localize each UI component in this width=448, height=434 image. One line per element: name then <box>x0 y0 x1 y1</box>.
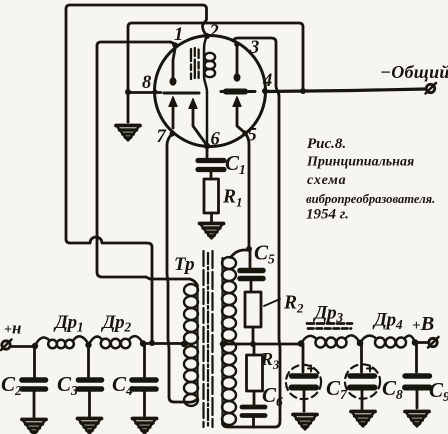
tube: coil core hatching <box>191 48 199 79</box>
svg-text:4: 4 <box>262 71 272 91</box>
svg-text:5: 5 <box>248 126 257 146</box>
inductor Dr2 <box>89 336 144 348</box>
capacitor C4 <box>132 344 156 417</box>
wire: common rail pin8/ground to pin2 crossover and right drop <box>128 23 303 122</box>
capacitor C5 <box>240 250 263 292</box>
wire: Dr4 to +B terminal <box>412 339 429 346</box>
wire: pin5 down to C5 node <box>245 133 252 252</box>
svg-text:схема: схема <box>307 173 347 188</box>
resistor R1 <box>204 179 219 221</box>
svg-text:1: 1 <box>174 25 183 45</box>
transformer Tr secondary winding <box>222 257 236 425</box>
tube: right contact bar <box>221 90 255 93</box>
node Dr1/Dr2 junction <box>85 342 91 348</box>
node pin5 <box>242 130 247 135</box>
wire: pin1 rail to primary top <box>97 42 198 286</box>
vibrator tube envelope U1 <box>155 36 266 147</box>
node Dr3/Dr4 junction <box>357 340 364 347</box>
wire: pin7 to primary bottom <box>167 134 196 402</box>
svg-text:7: 7 <box>157 127 167 147</box>
svg-text:8: 8 <box>142 73 151 93</box>
capacitor C3 <box>79 345 102 416</box>
tube: reed arrow from pin6 <box>189 99 206 145</box>
dashed can around C7 <box>286 365 321 399</box>
node pin2 <box>204 33 210 39</box>
wire: outer loop from pin2 down-left to primary center tap <box>66 5 207 346</box>
wire: pin3 down right side to secondary bottom rail <box>222 38 280 427</box>
node pin7 <box>169 131 174 136</box>
wire: secondary top lead to C5 node <box>231 250 249 258</box>
node pin6 <box>204 143 210 149</box>
terminal +N input <box>1 340 12 351</box>
tube: left fixed contact from pin1 <box>170 42 178 86</box>
svg-text:вибропреобразователя.: вибропреобразователя. <box>306 192 435 206</box>
wire: pin 8 lead <box>125 89 161 95</box>
ground under C7 <box>293 415 317 430</box>
ground under C3 <box>78 419 102 434</box>
svg-text:Тр: Тр <box>174 254 195 275</box>
svg-text:1954 г.: 1954 г. <box>306 207 349 223</box>
inductor Dr4 <box>360 336 415 348</box>
capacitor C8 electrolytic <box>350 343 375 409</box>
wire: Dr2 to primary center tap rail <box>140 340 183 346</box>
capacitor C6 <box>242 391 265 427</box>
transformer secondary center tap <box>220 341 240 347</box>
svg-text:−Общий: −Общий <box>380 62 448 82</box>
resistor R2 <box>245 292 261 347</box>
caption text <box>306 136 435 223</box>
capacitor C9 <box>405 343 430 409</box>
svg-text:Принципиальная: Принципиальная <box>306 155 414 170</box>
plus mark C8 <box>367 366 373 372</box>
ground under C8 <box>351 412 375 427</box>
label R2 pointer <box>264 299 280 306</box>
tube: reed arrow from pin7 <box>169 97 177 129</box>
node pin8 <box>152 89 157 94</box>
core marks above Dr3 <box>307 324 352 329</box>
svg-text:6: 6 <box>211 130 221 150</box>
capacitor C7 electrolytic <box>292 344 317 412</box>
inductor Dr3 <box>301 335 360 347</box>
capacitor C1 <box>198 147 224 179</box>
tube: reed arrow from pin5 <box>233 97 244 133</box>
ground under C9 <box>405 412 429 427</box>
plus mark C7 <box>308 366 314 372</box>
svg-text:2: 2 <box>209 22 219 42</box>
terminal +B <box>428 337 439 348</box>
transformer Tr primary winding <box>184 284 198 406</box>
svg-text:Рис.8.: Рис.8. <box>307 136 346 152</box>
resistor R3 <box>247 344 263 391</box>
tube: right fixed contact from pin3 <box>234 41 241 82</box>
ground under C2 <box>22 420 46 434</box>
transformer core <box>204 251 213 427</box>
tube: left contact bar <box>164 92 199 95</box>
capacitor C2 <box>22 346 46 417</box>
ground at pin 8 <box>116 126 140 141</box>
terminal -Obshchiy <box>426 83 437 94</box>
transformer primary center tap <box>181 341 187 347</box>
ground under R1 <box>200 224 224 239</box>
ground under C4 <box>133 419 157 434</box>
inductor Dr1 <box>35 336 89 348</box>
wire: secondary CT rail to Dr3 <box>238 340 304 347</box>
dashed can around C8 <box>345 364 380 398</box>
svg-text:3: 3 <box>249 38 259 58</box>
wire: +N to Dr1 <box>11 343 38 349</box>
tube: drive coil between pin2 and pin6 <box>204 36 215 146</box>
wire: pin4 to -Obshchiy terminal <box>262 88 426 94</box>
